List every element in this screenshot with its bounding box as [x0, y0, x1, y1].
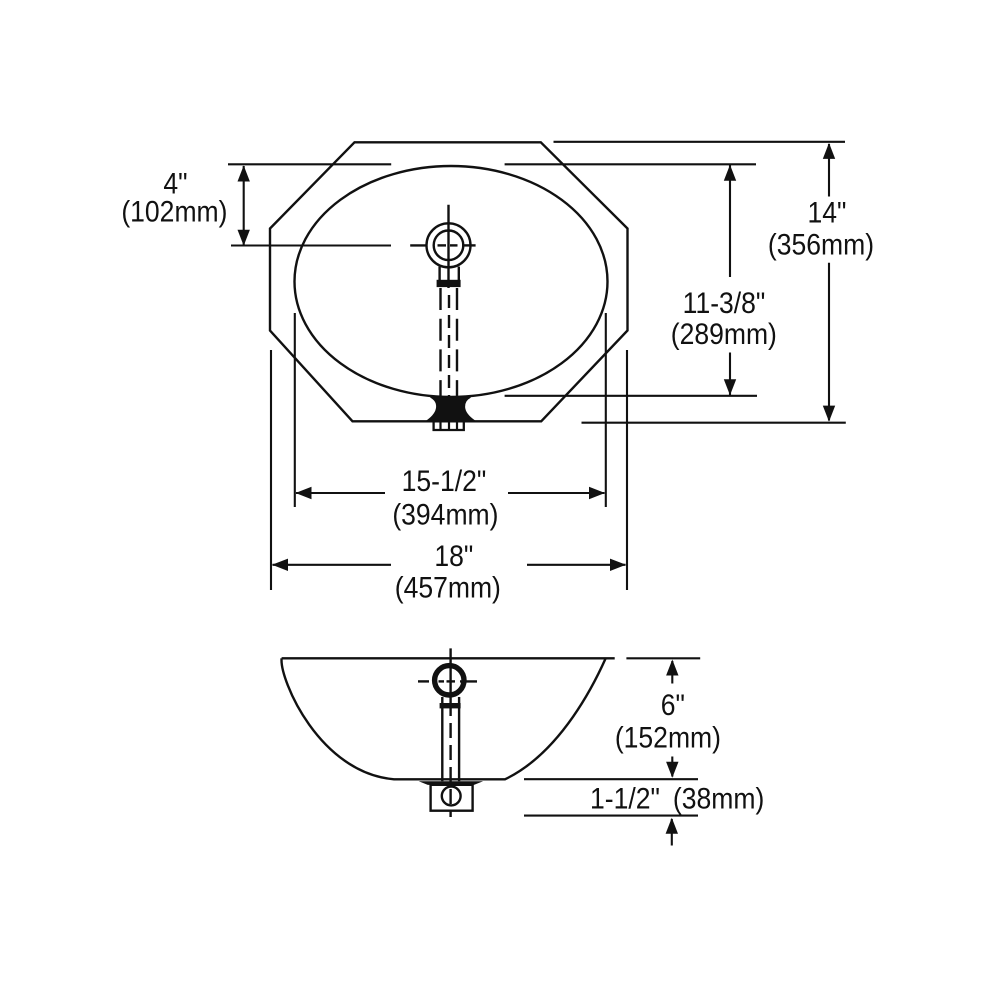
svg-text:(38mm): (38mm) — [673, 782, 764, 816]
svg-text:1-1/2": 1-1/2" — [590, 782, 660, 816]
svg-text:(394mm): (394mm) — [392, 498, 498, 532]
svg-text:15-1/2": 15-1/2" — [402, 465, 487, 499]
svg-text:(457mm): (457mm) — [395, 571, 501, 605]
svg-text:(152mm): (152mm) — [615, 721, 721, 755]
svg-text:(102mm): (102mm) — [121, 195, 227, 229]
svg-text:14": 14" — [808, 196, 847, 230]
svg-text:11-3/8": 11-3/8" — [683, 287, 766, 321]
svg-text:(289mm): (289mm) — [671, 317, 777, 351]
svg-text:6": 6" — [661, 689, 685, 723]
svg-text:(356mm): (356mm) — [768, 228, 874, 262]
svg-text:18": 18" — [434, 540, 473, 574]
